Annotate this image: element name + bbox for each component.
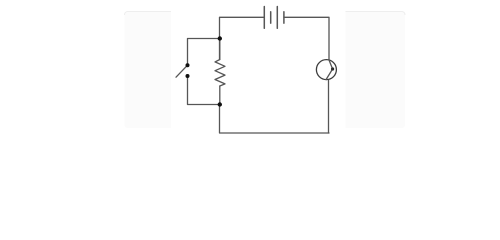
resistor R (zigzag) xyxy=(215,60,225,87)
wire: switch branch bottom xyxy=(188,76,220,105)
switch S: lever (open) xyxy=(176,65,188,77)
wire: battery to top-right corner, down to lamp xyxy=(284,17,329,60)
switch contact dot: top xyxy=(186,63,190,67)
wire: below lamp to bottom-right corner xyxy=(328,80,330,133)
wire: top-left to battery xyxy=(220,17,265,59)
battery B: long plate 2 xyxy=(276,7,278,29)
lamp filament bend dot xyxy=(331,67,334,70)
battery B: short plate 2 xyxy=(283,12,285,23)
switch contact dot: bottom xyxy=(186,74,190,78)
battery B: short plate 1 xyxy=(270,12,272,23)
lamp internal bent filament xyxy=(326,60,333,80)
junction dot: top (resistor/switch node) xyxy=(218,36,222,40)
white schematic panel xyxy=(171,0,346,150)
wire: bottom xyxy=(220,105,330,134)
wire: top junction to resistor xyxy=(219,39,221,60)
light gray card background xyxy=(125,11,406,128)
wire: switch branch top xyxy=(188,39,220,66)
card top edge line xyxy=(125,11,406,15)
junction dot: bottom (resistor/switch node) xyxy=(218,102,222,106)
wire: resistor bottom lead to bottom junction xyxy=(219,86,221,105)
battery B: long plate 1 xyxy=(263,7,265,29)
lamp/meter circle xyxy=(316,60,336,80)
